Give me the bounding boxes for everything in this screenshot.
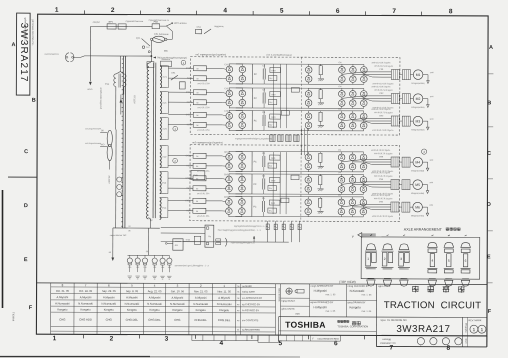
svg-text:ne1 mgeegsmm(gm1ngsehm): ne1 mgeegsmm(gm1ngsehm): [195, 54, 226, 56]
collector verticals: [167, 66, 169, 88]
brake resistor row 3: [319, 112, 322, 121]
svg-text:naaa REGISTERED: naaa REGISTERED: [317, 338, 339, 341]
brake resistor row 6: [319, 198, 322, 207]
axle number marks: [370, 235, 372, 236]
discharge unit GRD1: [270, 68, 281, 73]
svg-text:nhsgngha: nhsgngha: [464, 323, 466, 333]
svg-text:N.Numazaki: N.Numazaki: [125, 302, 140, 306]
svg-text:9702: 9702: [186, 240, 190, 242]
axle 1 (motored): [365, 244, 377, 286]
traction motor M5: [410, 184, 413, 186]
svg-text:esahhhehgahhms: esahhhehgahhms: [44, 54, 58, 56]
svg-text:CM: CM: [338, 172, 341, 174]
contactor CKB2: [193, 90, 206, 95]
potential box PT1: [179, 82, 185, 89]
svg-text:WN 6-5,6,7,8 2.5gahn: WN 6-5,6,7,8 2.5gahn: [374, 176, 393, 178]
svg-text:N.Numazaki: N.Numazaki: [147, 302, 162, 306]
svg-text:3: 3: [167, 7, 171, 14]
contactor KOT6: [193, 208, 206, 213]
svg-text:Kongetu: Kongetu: [219, 308, 230, 312]
svg-text:C: C: [24, 149, 28, 155]
DC link row 2: [236, 87, 252, 89]
DC link row 6: [235, 195, 251, 197]
junction arrow on feeder: [119, 99, 122, 103]
DC bus verticals bottom box: [272, 152, 274, 214]
TOSHIBA logo box: [279, 316, 377, 318]
aux transformer TV1: [119, 56, 121, 71]
svg-text:KOT2: KOT2: [187, 102, 193, 104]
svg-text:Sep. 29. 05: Sep. 29. 05: [102, 289, 116, 293]
svg-text:sgaa ms DRAWING NO.: sgaa ms DRAWING NO.: [380, 319, 407, 322]
tap stub: [167, 65, 168, 67]
3-phase output row 2: [342, 96, 392, 99]
svg-text:nssasana: nssasana: [161, 59, 170, 61]
contactor CKB1: [193, 66, 206, 71]
svg-text:ammhsasshnes(gm1,2): ammhsasshnes(gm1,2): [99, 87, 101, 109]
svg-text:ne2 mgeegsmm(gm2ngsehm): ne2 mgeegsmm(gm2ngsehm): [192, 142, 223, 144]
svg-text:CHG.DEL: CHG.DEL: [126, 318, 139, 322]
svg-text:8: 8: [449, 8, 453, 15]
svg-text:PRESENT TO: PRESENT TO: [380, 342, 395, 345]
secondary winding CV3: [160, 118, 161, 140]
output connector blocks row 2: [391, 94, 399, 104]
svg-text:am1-5,6,1 25A: am1-5,6,1 25A: [197, 215, 210, 218]
svg-text:M3sgns(am6M): M3sgns(am6M): [411, 129, 425, 131]
tap stub: [166, 193, 167, 195]
converter module row 5: [168, 171, 434, 196]
aux box GRD5b: [281, 198, 289, 203]
svg-text:T434A4: T434A4: [11, 312, 15, 322]
svg-text:M4sgns(am6M): M4sgns(am6M): [411, 170, 425, 172]
aux box SIV1: [268, 76, 277, 81]
svg-text:WN 6-5,6,7,8 2.5gahn: WN 6-5,6,7,8 2.5gahn: [374, 198, 393, 200]
discharge unit GRD5: [269, 178, 280, 183]
svg-text:am1-5,6,1 25A: am1-5,6,1 25A: [197, 170, 210, 173]
svg-text:1: 1: [55, 7, 59, 14]
svg-text:M1sgns(am6M): M1sgns(am6M): [411, 83, 425, 85]
svg-text:CHG.DEL: CHG.DEL: [194, 318, 207, 322]
brake resistor row 1: [319, 66, 322, 75]
svg-text:A: A: [12, 42, 16, 48]
contactor KOT5: [193, 186, 206, 191]
svg-text:amM 6-5,6,7,8,9 2.5gahn: amM 6-5,6,7,8,9 2.5gahn: [372, 216, 393, 218]
svg-text:WO: WO: [101, 144, 105, 146]
svg-text:ssmmmm(mn) gm1,2hhmgghhs - 1 -: ssmmmm(mn) gm1,2hhmgghhs - 1 - 3: [175, 265, 210, 267]
CVR box: [191, 171, 205, 180]
svg-text:amM 6-5,6,7,8,9 2.5gahn: amM 6-5,6,7,8,9 2.5gahn: [372, 83, 393, 85]
svg-text:hgsg SCALE: hgsg SCALE: [282, 300, 296, 303]
switch QF1 branch: [142, 39, 151, 47]
svg-text:A.Miyoshi: A.Miyoshi: [149, 295, 161, 299]
svg-text:mhsg CHECKED BY: mhsg CHECKED BY: [348, 286, 370, 288]
axle 2 (motored): [381, 244, 393, 286]
fuse PB2: [152, 24, 160, 29]
svg-text:WN 6-5,6,7,8 2.5gahn: WN 6-5,6,7,8 2.5gahn: [374, 66, 393, 68]
svg-text:amM 6-5,6,7,8,9 2.5gahn: amM 6-5,6,7,8,9 2.5gahn: [372, 130, 393, 132]
svg-text:CM: CM: [338, 86, 341, 88]
aux box SIV4: [268, 163, 277, 168]
inverter partition dashed: [300, 57, 302, 134]
svg-text:3W3RA217: 3W3RA217: [18, 23, 29, 83]
svg-text:Sep. 8. 05: Sep. 8. 05: [126, 289, 139, 293]
detector input wires: [161, 226, 205, 228]
bottom feeder bus: [113, 227, 160, 229]
svg-text:sm5,6ngsehmmaee: sm5,6ngsehmmaee: [85, 128, 101, 130]
svg-text:am6-5,6,7,8,9 2.5gahn: am6-5,6,7,8,9 2.5gahn: [371, 150, 390, 152]
svg-text:7: 7: [390, 345, 394, 352]
scan edge artifact bottom: [0, 356, 150, 358]
svg-text:mar. 1. 05: mar. 1. 05: [361, 310, 372, 313]
svg-text:sa(ss) DATE: sa(ss) DATE: [242, 291, 255, 294]
svg-text:CVR: CVR: [193, 175, 198, 177]
svg-text:5: 5: [448, 259, 450, 263]
inverter IGBT row 6: [305, 199, 312, 206]
brace and note: [225, 238, 227, 247]
svg-text:M5: M5: [415, 183, 420, 187]
svg-text:am6-5,6,7,8,9 2.5gahn: am6-5,6,7,8,9 2.5gahn: [371, 109, 390, 111]
tap stub: [167, 145, 169, 147]
axle 4 (trailer): [427, 242, 437, 286]
svg-text:B: B: [32, 98, 36, 104]
terminal strip rails: [122, 56, 125, 228]
svg-text:N.Numazaki: N.Numazaki: [101, 302, 116, 306]
3-phase output row 4: [342, 159, 392, 162]
svg-text:am6-5,6,7,8,9 2.5gahn: am6-5,6,7,8,9 2.5gahn: [371, 62, 390, 64]
svg-text:AXLE ARRANGEMENT: AXLE ARRANGEMENT: [404, 228, 443, 232]
svg-text:FC: FC: [254, 98, 257, 100]
contactor KOT1: [193, 76, 206, 81]
aux box SIV6: [268, 208, 277, 213]
wire QS1 to bus: [167, 38, 172, 40]
revision balloon 2: [173, 158, 178, 163]
top supply wire: [91, 25, 151, 27]
svg-text:mgsaaammannssa: mgsaaammannssa: [126, 21, 144, 23]
svg-text:mn APPROVED BY: mn APPROVED BY: [242, 297, 263, 300]
svg-text:4: 4: [223, 7, 227, 14]
title block outline: [281, 283, 487, 286]
svg-text:FC: FC: [254, 120, 257, 122]
svg-text:5: 5: [280, 8, 284, 15]
output connector blocks row 4: [391, 157, 399, 167]
converter module row 1: [168, 61, 434, 86]
svg-text:Kongetu: Kongetu: [350, 305, 362, 309]
svg-text:N.Numazaki: N.Numazaki: [78, 302, 93, 306]
svg-text:shsm: shsm: [464, 338, 466, 343]
aux box SIV2: [291, 88, 299, 93]
discharge unit GRD6: [269, 200, 280, 205]
svg-text:1: 1: [53, 335, 57, 342]
svg-text:CHG: CHG: [106, 318, 112, 322]
svg-text:eemsgg: eemsgg: [382, 338, 391, 341]
approved/checked/designed/drawn cells: [310, 299, 377, 301]
svg-text:A: A: [489, 45, 493, 51]
left drop arrow: [112, 228, 114, 257]
zone ticks bottom edge: [82, 334, 84, 338]
svg-text:2: 2: [111, 7, 115, 14]
arrester feeder: [147, 228, 149, 255]
svg-text:Oct. 18. 05: Oct. 18. 05: [79, 289, 93, 293]
svg-text:FC: FC: [254, 74, 257, 76]
converter module row 3: [168, 108, 434, 133]
svg-text:(sm 3 ammhghhsmssgee): (sm 3 ammhghhsmssgee): [266, 55, 292, 57]
svg-text:CHG.DEL: CHG.DEL: [218, 318, 231, 322]
axle 6 (trailer): [460, 242, 470, 286]
main transformer TV primary winding: [147, 63, 149, 219]
terminal strip ticks: [121, 59, 123, 226]
svg-text:CKB2: CKB2: [186, 92, 192, 94]
svg-text:snM: snM: [430, 96, 434, 98]
DC link row 5: [236, 173, 252, 175]
svg-text:TOSHIBA. CORPORATION: TOSHIBA. CORPORATION: [337, 325, 368, 328]
contactor CKB4: [193, 153, 206, 158]
svg-text:A.Miyoshi: A.Miyoshi: [195, 296, 207, 300]
svg-text:CM: CM: [338, 109, 341, 111]
svg-text:3: 3: [165, 336, 169, 343]
svg-text:D: D: [487, 202, 491, 208]
3-phase output row 1: [342, 72, 392, 75]
svg-text:aaegsa: aaegsa: [93, 22, 101, 24]
breaker QS1: [153, 36, 165, 42]
contactor KOT4: [193, 163, 206, 168]
secondary winding CV1: [160, 66, 161, 88]
svg-text:KOT3: KOT3: [187, 124, 193, 126]
revision balloon 1a: [181, 60, 186, 65]
svg-text:Kongetu: Kongetu: [196, 308, 207, 312]
svg-text:A.Numazaki: A.Numazaki: [55, 301, 70, 305]
svg-text:TOSHIBA: TOSHIBA: [285, 320, 326, 330]
svg-text:M2sgns(am6M): M2sgns(am6M): [411, 107, 425, 109]
svg-text:snM: snM: [429, 182, 433, 184]
svg-text:KOT6: KOT6: [186, 210, 192, 212]
svg-text:CHG ADD: CHG ADD: [79, 318, 92, 322]
aux box SIV3: [268, 122, 277, 127]
registered subrow: [279, 330, 377, 332]
svg-text:snM: snM: [429, 205, 433, 207]
svg-text:Kongetu: Kongetu: [81, 308, 92, 312]
transformer top lead: [150, 56, 152, 61]
secondary winding CV2: [160, 146, 161, 168]
inverter bridge row 1: [339, 67, 346, 74]
svg-text:8: 8: [447, 345, 451, 352]
svg-text:am6-5,6,7,8,9 2.5gahn: am6-5,6,7,8,9 2.5gahn: [371, 86, 390, 88]
converter module row 2: [168, 85, 434, 110]
svg-text:CKB1: CKB1: [186, 68, 192, 70]
svg-text:DC110V: DC110V: [133, 96, 135, 105]
svg-text:M6: M6: [415, 206, 420, 210]
svg-text:PB2: PB2: [154, 22, 159, 24]
svg-text:mar. 1. 05: mar. 1. 05: [362, 293, 373, 296]
svg-text:sg REGISTERED: sg REGISTERED: [242, 330, 260, 332]
svg-text:Nov. 11. 05: Nov. 11. 05: [217, 289, 231, 293]
svg-text:WP2 annssa: WP2 annssa: [174, 23, 187, 25]
svg-text:N.Kurozaki: N.Kurozaki: [350, 289, 365, 293]
contactor CKB3: [193, 112, 206, 117]
fuse BP1: [107, 24, 116, 29]
fold mark left: [8, 176, 37, 178]
svg-text:WN 6-5,6,7,8 2.5gahn: WN 6-5,6,7,8 2.5gahn: [374, 153, 393, 155]
svg-text:E: E: [487, 254, 491, 260]
svg-text:CHG: CHG: [174, 318, 180, 322]
stub WO: [100, 145, 107, 147]
svg-text:Jan. 10. 06: Jan. 10. 06: [171, 289, 185, 293]
inverter bridge row 2: [339, 91, 346, 98]
converter unit box bogie 1 (dashed): [190, 57, 400, 135]
svg-text:KOT4: KOT4: [187, 165, 193, 167]
svg-text:egmm DESIGNED BY: egmm DESIGNED BY: [311, 302, 334, 304]
title block lower extension frame: [486, 336, 488, 347]
svg-text:4: 4: [431, 259, 433, 263]
svg-text:3W3RA217: 3W3RA217: [396, 324, 450, 335]
svg-text:6: 6: [465, 259, 467, 263]
svg-text:gasg DRAWN BY: gasg DRAWN BY: [348, 301, 366, 304]
svg-text:A.Miyoshi: A.Miyoshi: [80, 295, 92, 299]
axle arrangement box: [361, 237, 480, 279]
svg-text:Oct. 31. 05: Oct. 31. 05: [56, 289, 70, 293]
tap stub: [167, 113, 168, 115]
tap stub: [166, 197, 167, 199]
svg-text:mngh APPROVED BY: mngh APPROVED BY: [311, 285, 334, 288]
revision balloon 1: [173, 126, 178, 131]
3-phase output row 5: [341, 182, 391, 185]
DC link row 1: [236, 63, 252, 65]
svg-text:mar. 1. 05: mar. 1. 05: [326, 293, 337, 296]
svg-text:mar. 1. 05: mar. 1. 05: [325, 310, 336, 313]
3-phase output row 3: [342, 118, 392, 121]
svg-text:CM: CM: [338, 195, 341, 197]
svg-text:am6-5,6,7,8,9 2.5gahn: am6-5,6,7,8,9 2.5gahn: [371, 172, 390, 174]
3-phase output row 6: [341, 204, 391, 207]
drawing number box: [461, 317, 463, 346]
revision balloon 4: [421, 149, 426, 154]
converter module row 6: [168, 194, 434, 219]
svg-text:mghmaansgghhmg(gm1,2): mghmaansgghhmg(gm1,2): [231, 242, 255, 244]
svg-text:M4: M4: [415, 161, 420, 165]
wire QS1 down: [151, 41, 153, 57]
svg-text:WN 6-5,6,7,8 2.5gahn: WN 6-5,6,7,8 2.5gahn: [374, 90, 393, 92]
svg-text:REV. MARK: REV. MARK: [468, 319, 481, 322]
svg-text:AC100V: AC100V: [107, 175, 110, 184]
svg-text:WN 6-5,6,7,8 2.5gahn: WN 6-5,6,7,8 2.5gahn: [374, 112, 393, 114]
svg-text:A.Miyoshi: A.Miyoshi: [126, 295, 138, 299]
svg-text:Kongetu: Kongetu: [104, 308, 115, 312]
contactor KOT2: [193, 100, 206, 105]
zone ticks right edge: [488, 73, 493, 75]
third-angle projection symbols: [286, 288, 292, 294]
svg-text:6: 6: [336, 8, 340, 15]
DC link row 4: [236, 150, 252, 152]
svg-text:sghn TITLE: sghn TITLE: [378, 285, 391, 288]
inverter IGBT row 1: [305, 66, 312, 73]
svg-text:sm5,6ngsehmmaee: sm5,6ngsehmmaee: [85, 143, 101, 145]
svg-text:Kongetu: Kongetu: [57, 307, 68, 311]
inverter bridge row 6: [338, 199, 345, 206]
axle 3 (motored): [398, 244, 410, 286]
junction dot: [151, 55, 153, 57]
svg-text:TRACTION CIRCUIT: TRACTION CIRCUIT: [384, 300, 482, 311]
DC bus verticals top box: [272, 64, 274, 128]
transformer bottom lead: [148, 217, 150, 228]
svg-text:Kongetu: Kongetu: [172, 308, 183, 312]
svg-text:QS1 hehseeae: QS1 hehseeae: [154, 34, 169, 36]
svg-text:CM: CM: [338, 150, 341, 152]
tap switch DS1: [171, 75, 178, 80]
svg-text:BP1: BP1: [109, 22, 114, 24]
discharge unit GRD4: [270, 155, 281, 160]
svg-text:7: 7: [392, 8, 396, 15]
output connector blocks row 1: [391, 70, 399, 80]
svg-text:Nov. 21. 05: Nov. 21. 05: [194, 289, 208, 293]
svg-text:M3: M3: [416, 120, 421, 124]
inverter bridge row 3: [338, 113, 345, 120]
svg-text:MG: MG: [164, 51, 168, 53]
tap stub: [167, 171, 168, 173]
svg-text:mgsaaammannssa ns: mgsaaammannssa ns: [149, 20, 169, 22]
TV1 secondary drops: [115, 87, 117, 130]
svg-text:sg CHECKED BY: sg CHECKED BY: [242, 304, 260, 306]
brake resistor row 2: [319, 90, 322, 99]
svg-text:M1: M1: [416, 73, 421, 77]
svg-text:2: 2: [384, 257, 386, 261]
svg-text:sagssnhhmm TA2: sagssnhhmm TA2: [110, 234, 127, 237]
svg-text:N.Numazaki: N.Numazaki: [193, 302, 208, 306]
secondary winding EV2: [160, 172, 161, 194]
strip feeder line: [115, 129, 117, 227]
svg-text:N.Numazaki: N.Numazaki: [170, 302, 185, 306]
switch WP2: [160, 25, 166, 27]
svg-text:snM: snM: [430, 160, 434, 162]
contactor CKB5: [193, 176, 206, 181]
svg-text:CHG.DEL: CHG.DEL: [148, 318, 161, 322]
brake resistor row 5: [319, 176, 322, 185]
secondary winding EV1: [160, 92, 161, 114]
svg-text:A.Miyoshi: A.Miyoshi: [218, 296, 230, 300]
svg-text:snM: snM: [430, 72, 434, 74]
svg-text:CKB6: CKB6: [185, 200, 191, 202]
svg-text:FC: FC: [254, 161, 257, 163]
svg-text:mm: mm: [295, 313, 299, 316]
tap stub: [167, 87, 169, 89]
svg-text:mgmsgshmaashmasaggmm FL-1 ~ 3: mgmsgshmaashmasaggmm FL-1 ~ 3: [234, 226, 268, 228]
svg-text:4: 4: [220, 340, 224, 347]
svg-text:3: 3: [400, 257, 402, 261]
inverter IGBT row 5: [305, 176, 312, 183]
svg-text:mgeegsmmammhnshs(gm1,2ngsehmms: mgeegsmmammhnshs(gm1,2ngsehmms): [235, 138, 272, 140]
transformer core: [152, 63, 155, 218]
svg-text:CHG: CHG: [59, 317, 65, 321]
svg-text:Kongetu: Kongetu: [150, 308, 161, 312]
scan edge artifact left: [2, 190, 4, 308]
AS output wire: [183, 241, 289, 243]
svg-text:REGISTERS: REGISTERS: [277, 288, 279, 302]
converter module row 4: [168, 149, 434, 174]
svg-text:am1-5,6,1 25A: am1-5,6,1 25A: [197, 129, 210, 132]
svg-text:KOT5: KOT5: [186, 188, 192, 190]
svg-text:am1-5,6,1 25A: am1-5,6,1 25A: [197, 106, 210, 109]
svg-text:M2: M2: [416, 97, 421, 101]
projection symbol box: [281, 297, 310, 299]
inter-bogie connector blocks: [270, 135, 275, 142]
tap stub: [167, 167, 169, 169]
svg-text:hn REVISED BY: hn REVISED BY: [242, 310, 259, 312]
aux box beside AS: [194, 236, 201, 244]
svg-text:E: E: [24, 257, 28, 263]
box PD1: [118, 24, 126, 29]
svg-text:1: 1: [367, 257, 369, 261]
earthing switch CS1: [196, 29, 202, 34]
svg-text:Fig1 nsgghhmg(gm1amshnsgghnesh: Fig1 nsgghhmg(gm1amshnsgghneshhna) - 1 -…: [218, 230, 262, 232]
svg-text:am1-5,6,1 25A: am1-5,6,1 25A: [197, 192, 210, 195]
tap stub: [167, 91, 168, 93]
